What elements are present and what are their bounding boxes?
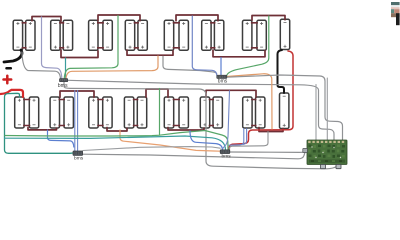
cell B5b bbox=[179, 97, 188, 128]
cell T7b bbox=[257, 20, 266, 50]
cell T6a bbox=[202, 20, 211, 50]
wire blue from B5-B6 junction to bms4 bbox=[190, 131, 223, 150]
wire grey from T5 bottom junction around right side to PCB bottom tab bbox=[163, 56, 217, 74]
cell B4a bbox=[124, 97, 133, 128]
cell T5b bbox=[179, 20, 188, 50]
wire teal from B1 top along left edge to bms2 bbox=[5, 93, 74, 153]
cell T3b bbox=[103, 20, 112, 50]
wire jumper B5 pair bbox=[173, 100, 180, 126]
PCB bottom tab 1 bbox=[321, 165, 326, 169]
wire blue pair from B7 bottom to bms4 bbox=[229, 129, 247, 146]
wire series T3 top to T4 top bbox=[98, 15, 140, 21]
PCB left tab bbox=[303, 149, 308, 153]
positive terminal symbol (red plus) bbox=[4, 76, 12, 84]
wire jumper B1 pair bbox=[23, 100, 30, 126]
cell T4a bbox=[125, 20, 134, 50]
wire series T5 top to T6 top bbox=[176, 15, 218, 21]
wire grey bms1 output to PCB top bbox=[68, 80, 334, 140]
cell T1a bbox=[13, 20, 22, 50]
wire jumper B2 pair bbox=[59, 100, 66, 126]
cell B2b bbox=[64, 97, 73, 128]
wire grey companion drops into PCB top bbox=[316, 78, 327, 140]
wire series T1 top to T2 top bbox=[32, 17, 61, 22]
negative terminal symbol bbox=[7, 67, 11, 70]
cell B6b bbox=[213, 97, 222, 128]
cell B3a bbox=[89, 97, 98, 128]
cell T7a bbox=[243, 20, 252, 50]
connector bms3 bbox=[217, 75, 227, 78]
wire jumper T5 pair bbox=[173, 23, 180, 48]
cell B1a bbox=[15, 97, 24, 128]
svg-text:bms: bms bbox=[222, 153, 232, 159]
wire series B5 bottom to B6 bottom bbox=[168, 128, 204, 131]
wire jumper B3 pair bbox=[97, 100, 104, 126]
wire jumper B4 pair bbox=[133, 100, 139, 126]
connector bms2 bbox=[73, 151, 83, 155]
wire grey from B8 bottom junction to bms4 bbox=[230, 132, 269, 150]
wire jumper B6 pair bbox=[209, 100, 214, 126]
wire orange from bms3 down to B7-B8 junction bbox=[227, 74, 272, 129]
cell B4b bbox=[137, 97, 146, 128]
wire black negative lead from T1 bottom to left edge bbox=[4, 50, 22, 62]
wire blue from T5-T6 top junction to bms3 bbox=[192, 16, 217, 75]
wire green from B4-B5 top junction down and to bms4 bbox=[159, 89, 161, 136]
wire blue from B1-B2 bottom junction to bms2 bbox=[48, 130, 74, 147]
wire jumper T2 pair bbox=[59, 23, 64, 48]
BMS PCB board bbox=[307, 140, 347, 165]
wire series B3 bottom to B4 bottom bbox=[107, 128, 127, 132]
wire purple from T1-T2 top junction to bms1 bbox=[42, 17, 62, 79]
cell B1b bbox=[29, 97, 38, 128]
cell B5a bbox=[164, 97, 173, 128]
wire series B6 top to B7 top bbox=[206, 90, 256, 97]
wire jumper T7 pair bbox=[251, 23, 258, 48]
cell T8 bbox=[280, 19, 289, 49]
wire black from T8 bottom down to B8 top bbox=[278, 50, 285, 93]
wire series B1 bottom to B2 bottom bbox=[28, 128, 57, 130]
wire series B7 bottom to B8 bottom bbox=[259, 128, 283, 132]
cell B2a bbox=[50, 97, 59, 128]
svg-text:bms: bms bbox=[218, 78, 228, 84]
wire blue pair from B2-B3 top junction to bms2 bbox=[75, 91, 78, 152]
wire green from T3 bottom junction to bms1 bbox=[64, 16, 118, 79]
wire grey from T1 bottom to bms1 bbox=[22, 52, 61, 79]
cell T4b bbox=[138, 20, 147, 50]
wire jumper T6 pair bbox=[210, 23, 215, 48]
wire grey bms4 output to PCB left tab bbox=[230, 151, 303, 153]
wire series T6 bottom to T7 bottom bbox=[213, 50, 265, 57]
wire jumper B7 pair bbox=[251, 100, 256, 126]
cell T1b bbox=[26, 20, 35, 50]
wire blue from T6-T7 bottom junction to bms3 bbox=[220, 58, 222, 76]
cell B6a bbox=[200, 97, 209, 128]
wire green from T7 bottom junction to bms3 bbox=[227, 16, 269, 75]
PCB bottom tab 2 bbox=[336, 165, 341, 169]
wire jumper T3 pair bbox=[97, 23, 104, 48]
cell B7b bbox=[256, 97, 265, 128]
wire orange from T4-T5 bottom junction to bms1 bbox=[66, 56, 158, 79]
cell B7a bbox=[243, 97, 252, 128]
wire red positive lead to B1 top bbox=[1, 90, 24, 97]
wire jumper T1 pair bbox=[22, 23, 27, 48]
cell T5a bbox=[164, 20, 173, 50]
cell B3b bbox=[103, 97, 112, 128]
svg-text:bms: bms bbox=[58, 83, 68, 89]
connector bms1 bbox=[60, 79, 68, 82]
wire orange from B3-B4 junction to bms4 bbox=[120, 130, 220, 151]
cell T6b bbox=[214, 20, 223, 50]
cell T2a bbox=[51, 20, 60, 50]
wire grey bms3 output to PCB top bbox=[227, 75, 343, 140]
wire green lower bus to bms4 bbox=[5, 131, 228, 150]
wire blue from B6-B7 top junction to bms4 bbox=[223, 91, 230, 150]
wire jumper T4 pair bbox=[134, 23, 139, 48]
connector bms4 bbox=[220, 150, 230, 154]
wire red from T8 bottom down to bms4 bbox=[229, 51, 293, 150]
wire series B4 top to B5 top bbox=[146, 89, 168, 97]
wire series T7 top to T8 top bbox=[252, 16, 285, 21]
wire grey bus from bms1 down around to PCB bottom tab bbox=[64, 82, 337, 169]
cell T2b bbox=[63, 20, 72, 50]
wire series T2 bottom to T3 bottom bbox=[61, 50, 98, 58]
cell B8 bbox=[280, 93, 289, 129]
cell T3a bbox=[89, 20, 98, 50]
wire series T4 bottom to T5 bottom bbox=[127, 50, 173, 55]
wire series B2 top to B3 top bbox=[60, 91, 94, 97]
wire teal from T2-T3 bottom junction to bms1 bbox=[65, 58, 67, 79]
wire grey bms2 output to PCB left tab bbox=[83, 153, 305, 159]
svg-text:bms: bms bbox=[74, 156, 84, 162]
wire grey from bms2 toward bms4 bbox=[83, 147, 220, 151]
wire teal lower bus to bms4 bbox=[5, 136, 226, 150]
photo thumbnail fragment top-right corner bbox=[391, 2, 400, 25]
